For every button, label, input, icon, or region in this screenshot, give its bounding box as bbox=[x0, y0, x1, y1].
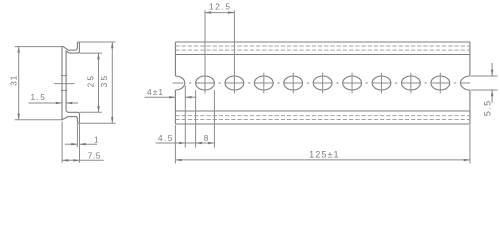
svg-text:25: 25 bbox=[86, 74, 96, 88]
svg-text:5.5: 5.5 bbox=[482, 99, 492, 116]
svg-text:125±1: 125±1 bbox=[309, 149, 339, 159]
svg-text:4.5: 4.5 bbox=[158, 133, 174, 143]
svg-text:1.5: 1.5 bbox=[30, 92, 46, 102]
svg-text:35: 35 bbox=[99, 74, 109, 88]
svg-text:12.5: 12.5 bbox=[209, 1, 232, 11]
svg-text:31: 31 bbox=[9, 75, 19, 86]
svg-text:4±1: 4±1 bbox=[147, 87, 164, 97]
svg-text:7.5: 7.5 bbox=[88, 150, 101, 160]
svg-text:1: 1 bbox=[94, 134, 99, 144]
svg-text:8: 8 bbox=[204, 133, 209, 143]
